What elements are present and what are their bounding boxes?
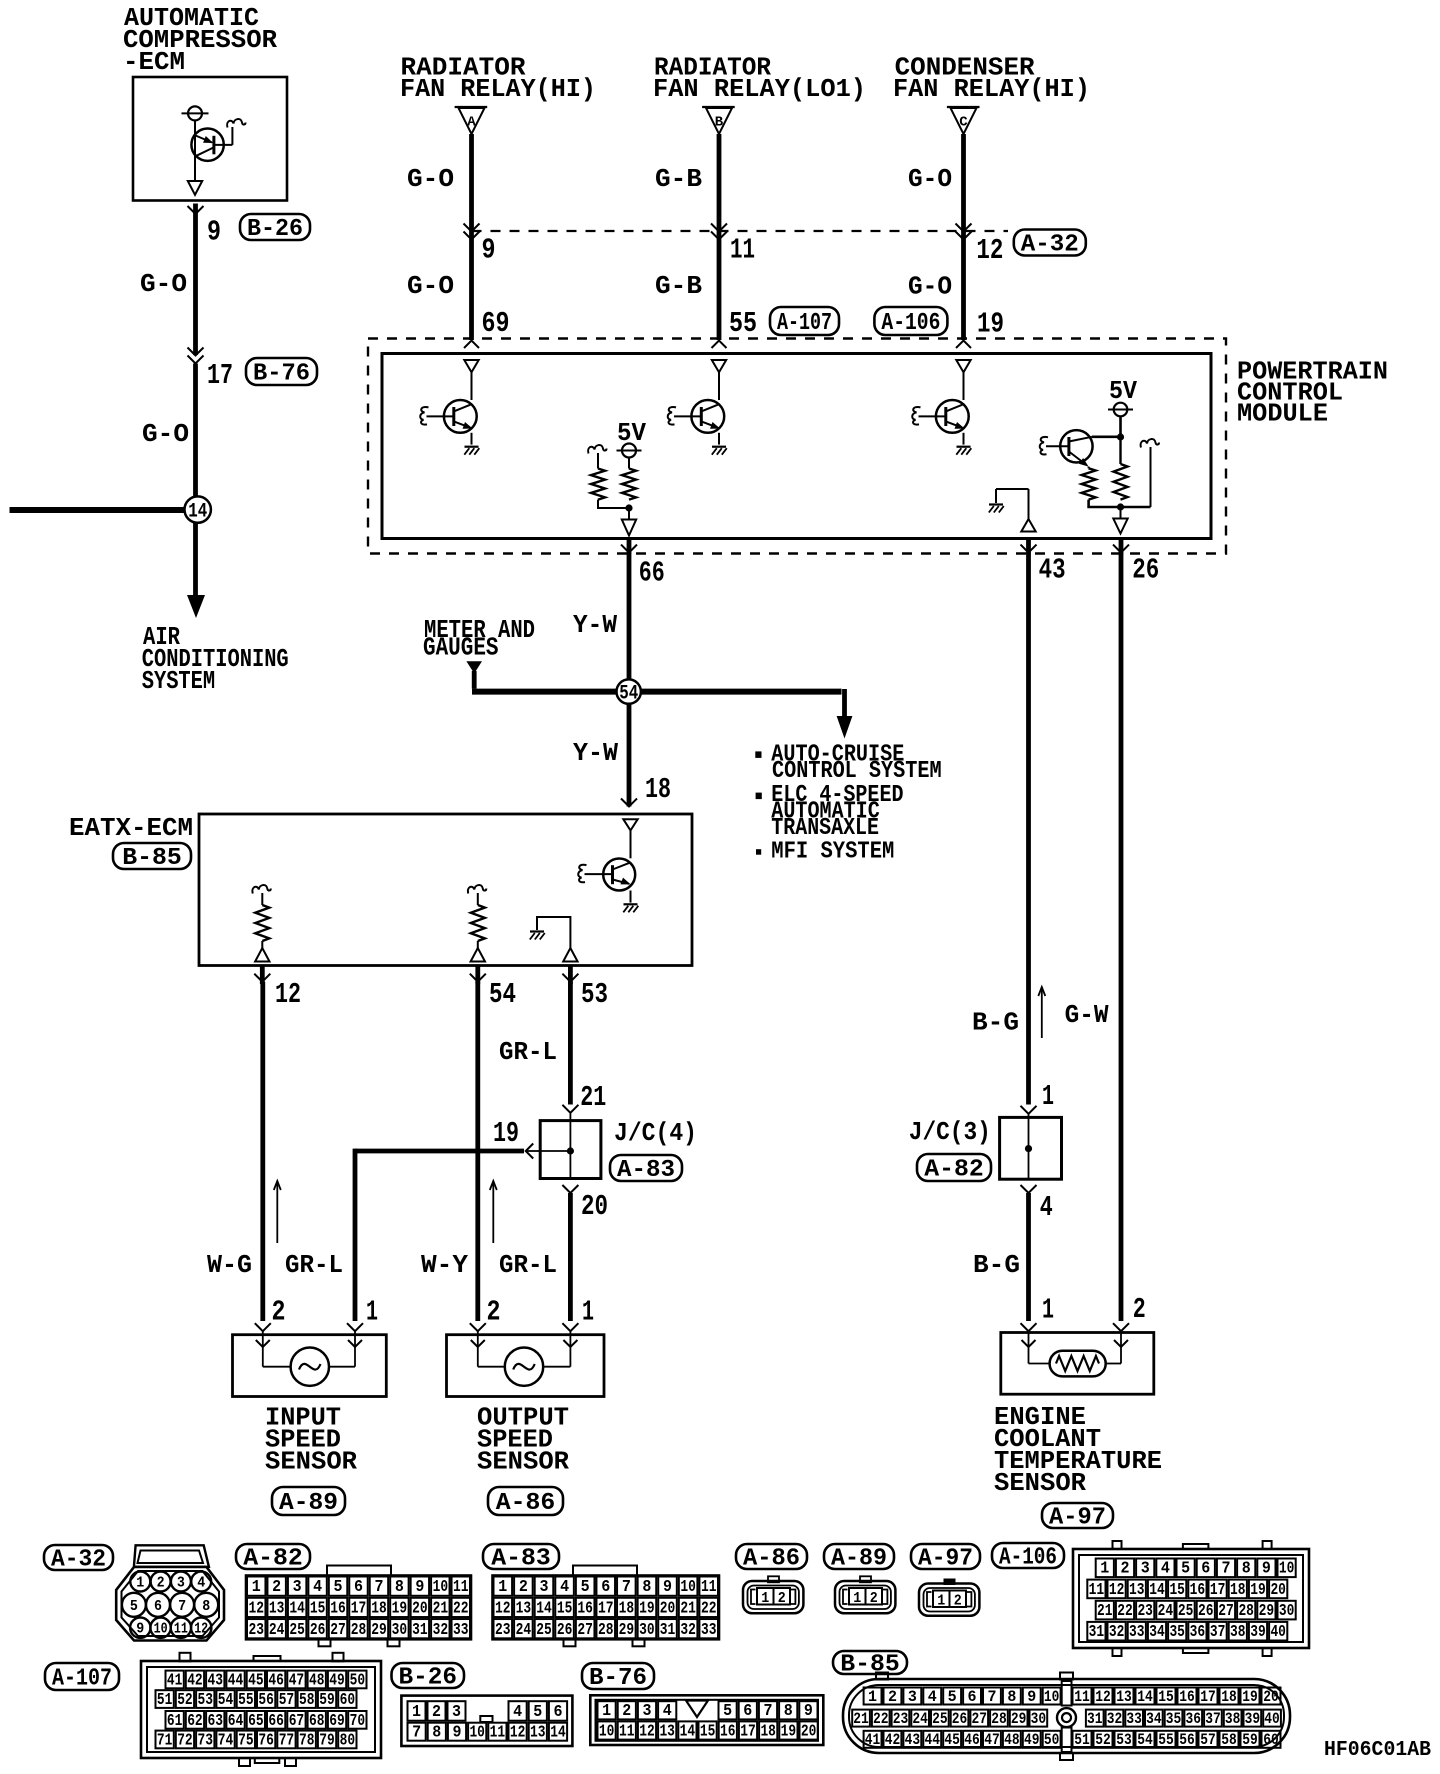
svg-text:G-O: G-O — [140, 269, 187, 299]
svg-text:5: 5 — [1181, 1559, 1190, 1578]
relay terminal triangle A — [455, 106, 488, 108]
svg-text:18: 18 — [371, 1600, 387, 1619]
arrow to meter and gauges — [466, 661, 482, 673]
wire GR-L from J/C(4) pin 20 to output speed sensor pin 1 — [568, 1193, 573, 1321]
5V supply terminal for pin 26 — [1114, 403, 1128, 417]
svg-text:MODULE: MODULE — [1237, 399, 1328, 429]
svg-text:12: 12 — [1095, 1688, 1111, 1706]
pull-up resistor to pin 26 — [1119, 437, 1121, 464]
svg-text:23: 23 — [1137, 1601, 1153, 1620]
svg-text:37: 37 — [1210, 1622, 1226, 1641]
svg-text:53: 53 — [1116, 1731, 1132, 1749]
svg-text:33: 33 — [1129, 1622, 1145, 1641]
svg-text:1: 1 — [366, 1296, 378, 1329]
svg-text:B-76: B-76 — [589, 1665, 647, 1692]
svg-text:1: 1 — [412, 1702, 421, 1721]
svg-text:3: 3 — [539, 1578, 548, 1597]
connector B-26 drawing — [401, 1696, 572, 1746]
svg-text:4: 4 — [197, 1575, 205, 1592]
wire from left edge to junction 14 — [10, 507, 185, 513]
resistor at Q4 emitter — [1088, 467, 1090, 469]
svg-text:63: 63 — [208, 1711, 224, 1730]
transistor Q1 ground — [471, 433, 473, 445]
svg-text:27: 27 — [577, 1621, 593, 1640]
svg-text:41: 41 — [167, 1670, 183, 1689]
wire A entry chevron pin 69 — [464, 341, 479, 349]
svg-text:1: 1 — [761, 1590, 769, 1607]
svg-text:19: 19 — [493, 1117, 519, 1150]
svg-text:5: 5 — [581, 1578, 590, 1597]
A-32 cavity 10 — [150, 1618, 170, 1638]
thermistor symbol — [1050, 1351, 1106, 1377]
A-32 cavity 3 — [171, 1572, 191, 1592]
PCM inner box — [382, 354, 1211, 539]
svg-text:8: 8 — [432, 1723, 441, 1742]
svg-text:11: 11 — [490, 1723, 506, 1742]
svg-text:10: 10 — [680, 1578, 696, 1597]
PCM transistor Q3 — [936, 400, 969, 433]
svg-text:32: 32 — [1109, 1622, 1125, 1641]
wire from junction 14 to air conditioning system — [193, 523, 198, 598]
svg-text:57: 57 — [279, 1690, 295, 1709]
svg-text:18: 18 — [760, 1721, 776, 1740]
svg-text:56: 56 — [1179, 1731, 1195, 1749]
svg-text:21: 21 — [433, 1600, 449, 1619]
svg-text:60: 60 — [1263, 1731, 1279, 1749]
svg-text:17: 17 — [207, 359, 233, 392]
svg-text:2: 2 — [1121, 1559, 1130, 1578]
svg-text:A-97: A-97 — [918, 1546, 973, 1573]
in-line connector A-32 dashed line — [472, 230, 1009, 232]
svg-text:36: 36 — [1190, 1622, 1206, 1641]
svg-text:17: 17 — [740, 1721, 756, 1740]
svg-text:11: 11 — [1089, 1580, 1105, 1599]
svg-text:50: 50 — [350, 1670, 366, 1689]
connector A-83 drawing — [493, 1576, 720, 1640]
svg-text:65: 65 — [248, 1711, 264, 1730]
sense resistor with curl lead — [588, 445, 606, 453]
svg-text:9: 9 — [1027, 1688, 1036, 1706]
svg-text:3: 3 — [177, 1575, 185, 1592]
svg-text:42: 42 — [885, 1731, 901, 1749]
signal arrow on W-G wire — [276, 1181, 278, 1243]
pin 26 exit chevron — [1119, 540, 1124, 554]
svg-text:4: 4 — [560, 1578, 569, 1597]
svg-text:19: 19 — [1242, 1688, 1258, 1706]
EATX transistor ground — [630, 891, 632, 903]
svg-text:17: 17 — [598, 1600, 614, 1619]
svg-text:13: 13 — [659, 1721, 675, 1740]
svg-text:68: 68 — [309, 1711, 325, 1730]
PCM transistor Q2 input triangle — [712, 360, 726, 372]
node at transistor Q4 collector — [1117, 433, 1124, 440]
svg-text:12: 12 — [275, 978, 301, 1011]
svg-text:9: 9 — [136, 1621, 144, 1638]
svg-text:2: 2 — [157, 1575, 165, 1592]
wire W-G from EATX pin 12 to input speed sensor pin 2 — [260, 982, 265, 1321]
svg-text:61: 61 — [167, 1711, 183, 1730]
svg-text:50: 50 — [1044, 1731, 1060, 1749]
svg-text:72: 72 — [177, 1730, 193, 1749]
svg-text:62: 62 — [187, 1711, 203, 1730]
svg-text:6: 6 — [354, 1578, 363, 1597]
svg-text:W-Y: W-Y — [421, 1250, 468, 1280]
svg-text:1: 1 — [582, 1296, 594, 1329]
svg-text:4: 4 — [313, 1578, 322, 1597]
svg-text:1: 1 — [602, 1701, 611, 1720]
svg-text:A-83: A-83 — [617, 1157, 675, 1184]
PCM transistor Q1 — [444, 400, 477, 433]
svg-text:9: 9 — [804, 1701, 813, 1720]
svg-text:20: 20 — [581, 1190, 608, 1223]
svg-text:7: 7 — [987, 1688, 996, 1706]
svg-text:36: 36 — [1186, 1710, 1202, 1728]
svg-text:G-O: G-O — [407, 164, 454, 194]
svg-text:52: 52 — [177, 1690, 193, 1709]
svg-text:45: 45 — [944, 1731, 960, 1749]
svg-text:12: 12 — [495, 1600, 511, 1619]
svg-text:A-86: A-86 — [496, 1490, 556, 1517]
svg-text:2: 2 — [870, 1590, 878, 1607]
svg-text:GR-L: GR-L — [285, 1250, 343, 1280]
svg-text:28: 28 — [1238, 1601, 1254, 1620]
output speed sensor box — [447, 1335, 605, 1397]
svg-text:66: 66 — [268, 1711, 284, 1730]
A-32 cavity 1 — [130, 1572, 150, 1592]
svg-text:69: 69 — [482, 307, 510, 340]
EATX pin 54 exit chevron — [475, 966, 480, 984]
svg-text:31: 31 — [1087, 1710, 1103, 1728]
svg-text:7: 7 — [1222, 1559, 1231, 1578]
connector A-82 drawing — [246, 1576, 471, 1640]
svg-text:24: 24 — [269, 1621, 285, 1640]
svg-text:G-O: G-O — [908, 164, 952, 194]
svg-text:15: 15 — [700, 1721, 716, 1740]
svg-text:21: 21 — [1097, 1601, 1113, 1620]
PCM outer dashed box — [368, 339, 1226, 554]
svg-text:1: 1 — [136, 1575, 144, 1592]
connector tag A-82 — [917, 1154, 991, 1181]
svg-text:FAN RELAY(HI): FAN RELAY(HI) — [400, 74, 596, 104]
svg-text:2: 2 — [622, 1701, 631, 1720]
svg-text:14: 14 — [1149, 1580, 1165, 1599]
A-32 cavity 6 — [146, 1593, 170, 1617]
svg-text:47: 47 — [984, 1731, 1000, 1749]
wire B-G from J/C(3) pin 4 to ECT sensor pin 1 — [1026, 1193, 1031, 1321]
svg-text:19: 19 — [392, 1600, 408, 1619]
svg-text:SENSOR: SENSOR — [994, 1468, 1086, 1498]
svg-text:24: 24 — [1158, 1601, 1174, 1620]
svg-text:7: 7 — [412, 1723, 421, 1742]
svg-text:11: 11 — [1074, 1688, 1090, 1706]
svg-text:78: 78 — [299, 1730, 315, 1749]
svg-text:22: 22 — [701, 1600, 717, 1619]
svg-text:C: C — [959, 115, 968, 131]
svg-text:10: 10 — [1279, 1559, 1295, 1578]
svg-text:13: 13 — [516, 1600, 532, 1619]
svg-text:13: 13 — [1116, 1688, 1132, 1706]
svg-text:1: 1 — [868, 1688, 877, 1706]
svg-text:58: 58 — [1221, 1731, 1237, 1749]
svg-text:8: 8 — [784, 1701, 793, 1720]
svg-text:3: 3 — [908, 1688, 917, 1706]
svg-text:24: 24 — [516, 1621, 532, 1640]
svg-text:6: 6 — [743, 1701, 752, 1720]
svg-text:7: 7 — [622, 1578, 631, 1597]
connector B-76 drawing — [590, 1695, 823, 1745]
svg-text:48: 48 — [1004, 1731, 1020, 1749]
connector tag A-89 — [824, 1544, 894, 1569]
svg-text:B-85: B-85 — [840, 1652, 900, 1679]
pin 26 output triangle — [1113, 519, 1127, 534]
relay terminal triangle C — [947, 106, 980, 108]
svg-text:43: 43 — [208, 1670, 224, 1689]
svg-text:30: 30 — [639, 1621, 655, 1640]
svg-text:19: 19 — [977, 308, 1004, 341]
relay terminal triangle B — [702, 106, 735, 108]
connector tag A-82 — [236, 1544, 310, 1569]
svg-text:A-106: A-106 — [999, 1545, 1057, 1572]
svg-text:20: 20 — [801, 1721, 817, 1740]
svg-text:46: 46 — [268, 1670, 284, 1689]
node joining pin-26 resistor bottoms — [1089, 500, 1151, 507]
svg-text:13: 13 — [269, 1600, 285, 1619]
wire G-O compressor-ECM to in-line connector B-76 — [193, 204, 198, 356]
svg-text:24: 24 — [912, 1710, 928, 1728]
svg-text:6: 6 — [154, 1598, 162, 1615]
svg-text:14: 14 — [289, 1600, 305, 1619]
junction 14 — [185, 496, 211, 522]
svg-text:57: 57 — [1200, 1731, 1216, 1749]
input speed sensor generator symbol — [291, 1348, 329, 1386]
svg-text:56: 56 — [258, 1690, 274, 1709]
svg-text:76: 76 — [258, 1730, 274, 1749]
svg-text:15: 15 — [557, 1600, 573, 1619]
svg-text:64: 64 — [228, 1711, 244, 1730]
svg-text:11: 11 — [619, 1721, 635, 1740]
svg-text:18: 18 — [1221, 1688, 1237, 1706]
A-32 cavity 9 — [130, 1618, 150, 1638]
svg-text:10: 10 — [1044, 1688, 1060, 1706]
svg-text:9: 9 — [1262, 1559, 1271, 1578]
svg-text:8: 8 — [1242, 1559, 1251, 1578]
PCM transistor Q1 input triangle — [464, 360, 478, 372]
svg-text:25: 25 — [1178, 1601, 1194, 1620]
svg-text:Y-W: Y-W — [573, 610, 617, 640]
svg-text:SENSOR: SENSOR — [477, 1447, 569, 1477]
wire G-O from B-76 to junction 14 — [193, 364, 198, 498]
transistor inside compressor-ECM — [191, 129, 223, 161]
svg-text:13: 13 — [1129, 1580, 1145, 1599]
svg-text:39: 39 — [1245, 1710, 1261, 1728]
wire G-O from relay C — [961, 134, 966, 340]
svg-text:75: 75 — [238, 1730, 254, 1749]
connector A-32 drawing — [116, 1545, 224, 1640]
svg-text:6: 6 — [1201, 1559, 1210, 1578]
svg-text:22: 22 — [1117, 1601, 1133, 1620]
svg-text:1: 1 — [853, 1590, 861, 1607]
svg-text:26: 26 — [1198, 1601, 1214, 1620]
connector chevrons at wire A pin 9 — [464, 224, 480, 232]
svg-text:2: 2 — [1133, 1293, 1146, 1326]
pin 66 output triangle — [622, 520, 636, 536]
svg-text:4: 4 — [928, 1688, 937, 1706]
svg-text:A-82: A-82 — [243, 1546, 303, 1573]
svg-text:J/C(4): J/C(4) — [614, 1118, 697, 1148]
connector tag A-89 — [272, 1487, 345, 1515]
svg-text:55: 55 — [1158, 1731, 1174, 1749]
svg-text:28: 28 — [351, 1621, 367, 1640]
svg-text:-ECM: -ECM — [123, 47, 185, 77]
output speed sensor generator symbol — [505, 1348, 543, 1386]
svg-text:54: 54 — [1137, 1731, 1153, 1749]
svg-text:60: 60 — [340, 1690, 356, 1709]
signal arrow on GR-L wire — [492, 1181, 494, 1243]
svg-text:FAN RELAY(HI): FAN RELAY(HI) — [893, 74, 1090, 104]
pin 66 exit chevron — [627, 540, 632, 554]
svg-text:23: 23 — [248, 1621, 264, 1640]
svg-text:15: 15 — [1169, 1580, 1185, 1599]
svg-text:32: 32 — [680, 1621, 696, 1640]
EATX transistor input triangle pin 18 — [623, 819, 637, 830]
transistor Q2 ground — [718, 433, 720, 445]
svg-text:4: 4 — [1161, 1559, 1170, 1578]
svg-text:38: 38 — [1225, 1710, 1241, 1728]
svg-text:70: 70 — [350, 1711, 366, 1730]
svg-text:1: 1 — [937, 1593, 945, 1610]
wire from meter arrow to junction 54 — [472, 689, 617, 695]
connector tag B-76 — [582, 1663, 654, 1689]
svg-text:10: 10 — [469, 1723, 485, 1742]
A-32 cavity 7 — [170, 1593, 194, 1617]
connector tag A-83 — [610, 1155, 682, 1181]
svg-text:35: 35 — [1166, 1710, 1182, 1728]
connector A-106 drawing — [1073, 1549, 1309, 1648]
junction 54 — [617, 679, 641, 703]
svg-text:5: 5 — [130, 1598, 138, 1615]
output triangle inside compressor-ECM — [188, 181, 202, 195]
svg-text:MFI SYSTEM: MFI SYSTEM — [771, 838, 894, 865]
svg-text:31: 31 — [1089, 1622, 1105, 1641]
svg-text:3: 3 — [1141, 1559, 1150, 1578]
svg-text:30: 30 — [1031, 1710, 1047, 1728]
input speed sensor box — [233, 1335, 387, 1397]
svg-text:1: 1 — [252, 1578, 261, 1597]
svg-text:32: 32 — [1107, 1710, 1123, 1728]
internal ground for pin 43 — [996, 488, 1029, 490]
svg-text:8: 8 — [642, 1578, 651, 1597]
svg-text:A-89: A-89 — [831, 1546, 887, 1573]
svg-text:20: 20 — [660, 1600, 676, 1619]
J/C(4) pin 20 exit chevron — [562, 1185, 578, 1193]
svg-text:51: 51 — [157, 1690, 173, 1709]
svg-text:7: 7 — [374, 1578, 383, 1597]
svg-text:29: 29 — [1011, 1710, 1027, 1728]
svg-text:7: 7 — [764, 1701, 773, 1720]
connector A-89 drawing — [835, 1581, 895, 1613]
svg-text:40: 40 — [1264, 1710, 1280, 1728]
connector chevron at compressor-ECM pin 9 — [188, 206, 204, 214]
svg-text:5: 5 — [723, 1701, 732, 1720]
svg-text:44: 44 — [925, 1731, 941, 1749]
connector tag B-76 — [246, 358, 317, 385]
svg-text:9: 9 — [482, 234, 496, 267]
svg-text:8: 8 — [202, 1598, 210, 1615]
svg-text:HF06C01AB: HF06C01AB — [1324, 1738, 1431, 1762]
svg-text:12: 12 — [639, 1721, 655, 1740]
svg-text:6: 6 — [968, 1688, 977, 1706]
svg-text:G-O: G-O — [908, 272, 952, 302]
svg-text:74: 74 — [218, 1730, 234, 1749]
svg-text:B-G: B-G — [973, 1250, 1020, 1280]
power terminal inside compressor-ECM — [188, 106, 202, 120]
svg-text:28: 28 — [991, 1710, 1007, 1728]
svg-text:7: 7 — [178, 1598, 186, 1615]
svg-text:1: 1 — [1100, 1559, 1109, 1578]
pin 43 exit chevron — [1026, 540, 1031, 554]
svg-text:G-O: G-O — [407, 271, 454, 301]
wire G-B from relay B — [717, 134, 722, 340]
connector tag A-86 — [736, 1544, 807, 1569]
connector chevrons at wire B pin 11 — [711, 224, 727, 232]
svg-text:51: 51 — [1074, 1731, 1090, 1749]
ECT sensor pin 1 chevrons — [1021, 1323, 1037, 1331]
svg-text:73: 73 — [198, 1730, 214, 1749]
svg-text:3: 3 — [293, 1578, 302, 1597]
connector tag A-97 — [911, 1544, 980, 1569]
svg-text:32: 32 — [433, 1621, 449, 1640]
svg-text:G-B: G-B — [655, 164, 702, 194]
svg-text:SENSOR: SENSOR — [265, 1447, 357, 1477]
svg-text:53: 53 — [198, 1690, 214, 1709]
svg-text:52: 52 — [1095, 1731, 1111, 1749]
svg-text:54: 54 — [218, 1690, 234, 1709]
svg-text:14: 14 — [1137, 1688, 1153, 1706]
svg-text:29: 29 — [619, 1621, 635, 1640]
wire from junction 54 to auto-cruise branch arrow — [641, 689, 842, 695]
svg-text:16: 16 — [720, 1721, 736, 1740]
svg-text:Y-W: Y-W — [573, 738, 618, 768]
svg-text:67: 67 — [289, 1711, 305, 1730]
svg-text:B: B — [715, 115, 724, 131]
in-line connector B-76 chevrons — [188, 348, 204, 356]
A-32 cavity 4 — [191, 1572, 211, 1592]
EATX sense resistor at pin 12 — [252, 885, 270, 893]
svg-text:12: 12 — [976, 234, 1003, 267]
J/C(3) pin 1 entry chevron — [1021, 1106, 1037, 1114]
connector tag B-26 — [240, 214, 310, 240]
PCM transistor Q2 — [691, 400, 724, 433]
svg-text:35: 35 — [1169, 1622, 1185, 1641]
ECT sensor pin 2 chevrons — [1113, 1323, 1129, 1331]
svg-text:58: 58 — [299, 1690, 315, 1709]
J/C(3) pin 4 exit chevron — [1021, 1185, 1037, 1193]
svg-text:21: 21 — [853, 1710, 869, 1728]
svg-text:3: 3 — [643, 1701, 652, 1720]
svg-text:26: 26 — [557, 1621, 573, 1640]
connector tag A-32 — [44, 1545, 113, 1570]
svg-text:21: 21 — [680, 1600, 696, 1619]
svg-text:17: 17 — [351, 1600, 367, 1619]
pin 43 input triangle — [1021, 519, 1035, 532]
svg-text:18: 18 — [619, 1600, 635, 1619]
input speed sensor pin 2 chevrons — [255, 1323, 271, 1331]
EATX pin 18 entry chevron — [621, 799, 637, 807]
PCM transistor Q3 input triangle — [956, 360, 970, 372]
svg-text:2: 2 — [888, 1688, 897, 1706]
svg-text:46: 46 — [964, 1731, 980, 1749]
svg-text:GR-L: GR-L — [499, 1250, 557, 1280]
